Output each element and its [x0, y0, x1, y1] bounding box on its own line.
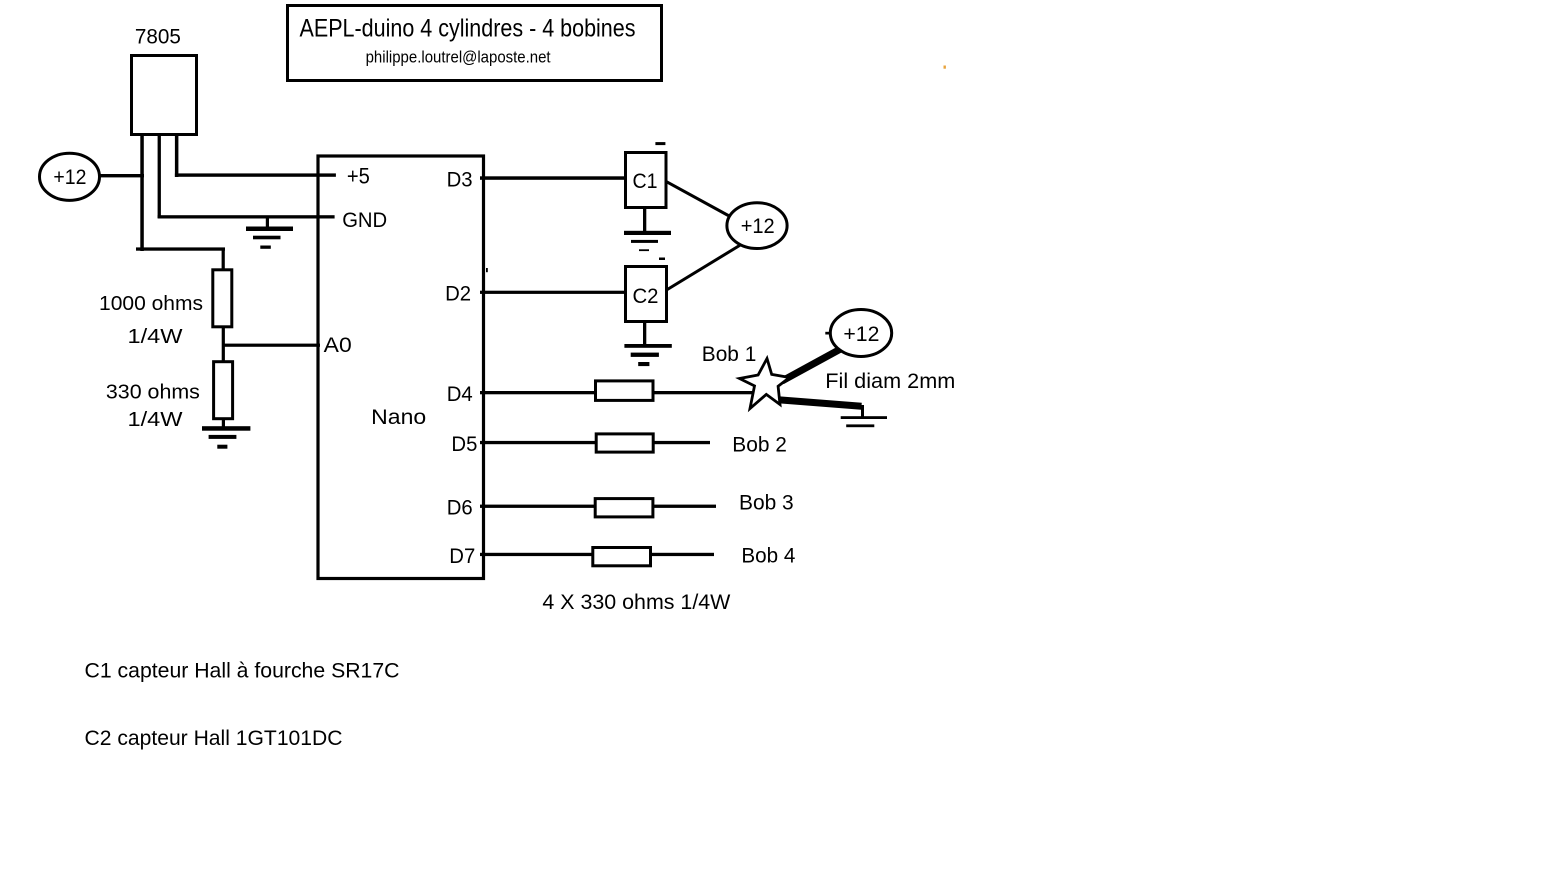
svg-text:+12: +12 — [53, 166, 86, 189]
svg-text:7805: 7805 — [135, 25, 181, 48]
wire D3 to C1 — [480, 176, 625, 180]
resistor R5 body — [596, 434, 653, 452]
resistor R6 body — [595, 499, 653, 517]
svg-text:1/4W: 1/4W — [128, 409, 183, 431]
svg-text:Bob 4: Bob 4 — [741, 545, 795, 568]
resistor R4 body — [596, 381, 654, 401]
label Fil diam 2mm — [825, 370, 955, 393]
svg-text:C1 capteur Hall à fourche SR17: C1 capteur Hall à fourche SR17C — [85, 660, 400, 683]
svg-text:1/4W: 1/4W — [128, 326, 183, 348]
note C1 capteur — [85, 660, 400, 683]
svg-text:+5: +5 — [347, 163, 370, 188]
svg-text:Bob 2: Bob 2 — [732, 433, 787, 456]
stray orange dot — [944, 66, 946, 69]
svg-text:1000 ohms: 1000 ohms — [99, 293, 203, 315]
wire +12 node to C2 — [667, 244, 743, 290]
regulator U1 7805 box — [132, 56, 197, 135]
wire to divider horizontal — [136, 247, 225, 250]
svg-text:D4: D4 — [447, 383, 473, 406]
label +12 middle — [741, 215, 775, 238]
svg-text:Fil diam 2mm: Fil diam 2mm — [825, 370, 955, 393]
ground below C2 — [624, 321, 671, 366]
pin A0 — [324, 334, 352, 357]
tick left of +12 at star — [825, 332, 830, 335]
wire +5 to nano — [175, 173, 336, 176]
pin +5 — [347, 163, 370, 188]
wire R7 out — [651, 553, 715, 556]
tick above C1 — [655, 142, 665, 145]
label Bob 3 — [739, 492, 794, 515]
wire regulator pin1 vertical — [140, 134, 144, 251]
svg-text:GND: GND — [342, 209, 387, 232]
svg-text:A0: A0 — [324, 334, 352, 357]
thick wire star to ground — [778, 400, 862, 407]
ground below R2 — [202, 418, 250, 449]
node +12 at star — [830, 310, 891, 357]
wire GND to nano — [158, 215, 335, 218]
wire D5 to R5 — [480, 441, 596, 444]
svg-text:D2: D2 — [445, 283, 471, 306]
wire +12 input to regulator — [100, 174, 144, 177]
wire R6 out — [653, 505, 716, 508]
wire D2 to C2 — [480, 291, 625, 294]
value 330 ohms — [106, 382, 200, 404]
wire D6 to R6 — [480, 505, 595, 508]
svg-text:C2 capteur Hall 1GT101DC: C2 capteur Hall 1GT101DC — [85, 727, 343, 750]
wire regulator pin3 vertical — [175, 134, 179, 177]
ground below C1 — [624, 209, 671, 251]
nano U2 box — [318, 156, 484, 579]
svg-text:D3: D3 — [447, 168, 473, 191]
title text — [300, 15, 636, 43]
note C2 capteur — [85, 727, 343, 750]
ground near GND wire — [246, 218, 293, 249]
wire R5 out — [653, 441, 710, 444]
tick above C2 — [659, 258, 665, 261]
title box — [288, 6, 662, 81]
pin D4 — [447, 383, 473, 406]
svg-text:+12: +12 — [741, 215, 775, 238]
svg-text:D6: D6 — [447, 497, 473, 520]
resistor R7 body — [593, 548, 651, 566]
svg-text:Bob 3: Bob 3 — [739, 492, 794, 515]
label C2 — [633, 285, 659, 308]
wire regulator pin2 vertical — [158, 134, 161, 218]
wire R4 to star — [653, 391, 757, 394]
tick on nano right edge — [486, 268, 488, 272]
pin D7 — [449, 545, 475, 568]
wire D4 to R4 — [480, 391, 596, 394]
spark star node — [740, 359, 790, 409]
wire drop to R1 — [222, 249, 225, 270]
svg-text:4 X 330 ohms 1/4W: 4 X 330 ohms 1/4W — [542, 591, 730, 614]
value 4 X 330 ohms 1/4W — [542, 591, 730, 614]
pin D5 — [451, 433, 477, 456]
node +12 middle — [727, 203, 787, 249]
label Bob 1 — [702, 343, 757, 366]
pin D2 — [445, 283, 471, 306]
wire R1 to R2 — [222, 327, 225, 363]
pin D3 — [447, 168, 473, 191]
wire C1 to +12 node — [667, 182, 732, 217]
value 1000 ohms — [99, 293, 203, 315]
pin D6 — [447, 497, 473, 520]
svg-text:AEPL-duino 4 cylindres - 4 bob: AEPL-duino 4 cylindres - 4 bobines — [300, 15, 636, 43]
wire A0 to nano — [223, 344, 320, 347]
svg-text:Nano: Nano — [371, 406, 426, 429]
resistor R2 330 ohms body — [214, 362, 233, 419]
svg-text:D5: D5 — [451, 433, 477, 456]
label Bob 4 — [741, 545, 795, 568]
sensor C1 box — [626, 153, 667, 208]
node +12 left — [40, 153, 100, 200]
resistor R1 1000 ohms body — [213, 270, 232, 327]
svg-text:+12: +12 — [843, 323, 879, 346]
wire D7 to R7 — [480, 553, 593, 556]
svg-text:philippe.loutrel@laposte.net: philippe.loutrel@laposte.net — [366, 48, 551, 67]
value 1/4W R2 — [128, 409, 183, 431]
ground at star — [841, 405, 887, 427]
label Bob 2 — [732, 433, 787, 456]
svg-text:C2: C2 — [633, 285, 659, 308]
svg-text:Bob 1: Bob 1 — [702, 343, 757, 366]
label C1 — [633, 170, 658, 193]
email text — [366, 48, 551, 67]
pin GND — [342, 209, 387, 232]
label 7805 — [135, 25, 181, 48]
label +12 at star — [843, 323, 879, 346]
label Nano — [371, 406, 426, 429]
svg-text:D7: D7 — [449, 545, 475, 568]
thick wire star to +12 — [782, 346, 846, 381]
svg-text:C1: C1 — [633, 170, 658, 193]
value 1/4W R1 — [128, 326, 183, 348]
sensor C2 box — [626, 267, 667, 322]
svg-text:330 ohms: 330 ohms — [106, 382, 200, 404]
label +12 left — [53, 166, 86, 189]
